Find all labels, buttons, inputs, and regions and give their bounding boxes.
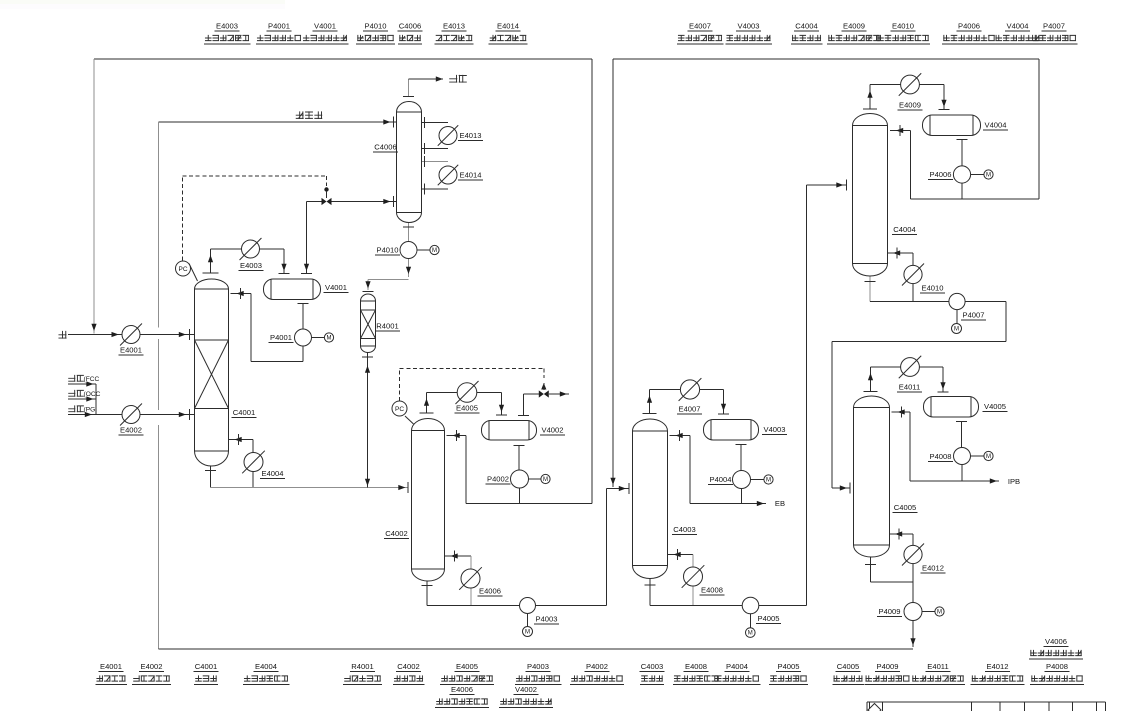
svg-text:P4002: P4002 [487, 475, 509, 484]
svg-text:V4005: V4005 [984, 402, 1006, 411]
svg-text:E4004: E4004 [255, 662, 277, 671]
title block (cut off at bottom edge) [867, 701, 1106, 703]
svg-text:C4005: C4005 [837, 662, 859, 671]
pump P4005 [742, 597, 759, 614]
column C4006 (purification column) [397, 102, 422, 223]
svg-text:E4001: E4001 [100, 662, 122, 671]
svg-text:EB: EB [775, 499, 785, 508]
heat exchanger E4011 [901, 358, 920, 377]
wire: E4008 reboiler loop [668, 554, 694, 556]
svg-text:C4005: C4005 [894, 503, 916, 512]
svg-text:E4011: E4011 [927, 662, 948, 671]
svg-text:V4003: V4003 [764, 425, 786, 434]
svg-text:M: M [766, 478, 771, 484]
svg-text:E4005: E4005 [456, 404, 478, 413]
svg-text:M: M [432, 248, 437, 254]
vessel V4002 [482, 421, 537, 441]
svg-text:V4003: V4003 [738, 22, 760, 31]
wire: E4010 reboiler loop [887, 252, 913, 254]
heat exchanger E4003 [242, 240, 260, 258]
wire: V4002 to P4002, reflux + distillate up [518, 446, 520, 471]
wire: C4001 overhead to E4003 to V4001 [210, 249, 212, 273]
svg-text:E4001: E4001 [120, 346, 142, 355]
pump P4003 [520, 598, 536, 614]
svg-text:R4001: R4001 [351, 662, 373, 671]
decorative faint strip (scan artifact) [0, 0, 285, 4]
svg-text:P4010: P4010 [365, 22, 387, 31]
pump P4008 [954, 448, 971, 465]
instrument PC (C4001 pressure control) [182, 176, 184, 261]
wire: E4012 reboiler loop [889, 533, 913, 535]
svg-text:V4006: V4006 [1045, 637, 1067, 646]
wire: C4004 overhead to E4009 to V4004 [869, 85, 871, 110]
svg-text:C4001: C4001 [195, 662, 217, 671]
heat exchanger E4008 [684, 567, 703, 586]
wire: V4005 to P4008, reflux + IPB product [961, 422, 963, 448]
vessel V4003 [704, 420, 759, 441]
wire: C4003 overhead to E4007 to V4003 [649, 390, 651, 414]
column C4005 (IPB/cumene column) [854, 396, 890, 557]
heat exchanger E4007 [680, 380, 699, 399]
heat exchanger E4004 [244, 453, 263, 472]
label dry gas PG [68, 405, 84, 412]
svg-text:C4001: C4001 [233, 408, 255, 417]
svg-text:P4009: P4009 [879, 607, 901, 616]
pump P4001 [295, 329, 312, 346]
svg-text:C4004: C4004 [795, 22, 817, 31]
heat exchanger E4013 [439, 127, 457, 145]
svg-text:E4009: E4009 [843, 22, 865, 31]
wire: E4004 reboiler loop [229, 439, 254, 441]
svg-text:E4008: E4008 [701, 586, 723, 595]
wire: E4006 reboiler loop [445, 555, 472, 557]
wire: C4002 bottoms via P4003 to C4003 feed [426, 581, 428, 606]
heat exchanger E4006 [461, 569, 480, 588]
wire: valve line to C4006 feed [307, 201, 322, 203]
pump P4009 [904, 603, 922, 621]
column C4004 (de-EB column) [853, 114, 888, 277]
pump P4006 [953, 166, 970, 183]
svg-text:E4006: E4006 [479, 587, 501, 596]
wire: C4003 bottoms via P4005 up to C4004 feed [649, 579, 651, 606]
svg-text:P4001: P4001 [268, 22, 290, 31]
svg-text:P4003: P4003 [536, 615, 558, 624]
svg-text:R4001: R4001 [376, 322, 398, 331]
svg-text:E4002: E4002 [120, 426, 142, 435]
svg-text:E4003: E4003 [240, 261, 262, 270]
svg-text:M: M [954, 327, 959, 333]
instrument PC (C4002) signal to valve [399, 369, 401, 402]
svg-text:P4010: P4010 [377, 246, 399, 255]
svg-text:E4011: E4011 [899, 383, 920, 392]
wire: C4005 overhead to E4011 to V4005 [870, 367, 872, 392]
svg-text:E4013: E4013 [460, 131, 482, 140]
svg-text:E4014: E4014 [497, 22, 519, 31]
svg-text:C4003: C4003 [673, 525, 695, 534]
svg-text:E4003: E4003 [216, 22, 238, 31]
svg-text:C4002: C4002 [385, 529, 407, 538]
svg-text:E4007: E4007 [679, 405, 701, 414]
svg-text:(OCC: (OCC [84, 391, 101, 398]
svg-text:M: M [986, 173, 991, 179]
svg-text:E4009: E4009 [899, 101, 921, 110]
wire: C4001 bottoms to C4002 feed [210, 466, 212, 488]
svg-text:V4004: V4004 [1007, 22, 1029, 31]
svg-text:M: M [937, 610, 942, 616]
label dry gas FCC [68, 375, 84, 382]
svg-text:P4008: P4008 [1046, 662, 1068, 671]
svg-text:(FCC: (FCC [84, 376, 100, 383]
wire: C4002 overhead to E4005 to V4002 [426, 393, 428, 413]
svg-text:M: M [748, 631, 753, 637]
svg-text:P4004: P4004 [710, 475, 732, 484]
svg-text:M: M [986, 454, 991, 460]
svg-text:V4001: V4001 [314, 22, 336, 31]
wire: DEB recycle line (bottom loop) [159, 121, 397, 123]
heat exchanger E4014 [439, 166, 457, 184]
svg-text:P4001: P4001 [270, 333, 292, 342]
heat exchanger E4010 [904, 265, 922, 283]
svg-text:C4006: C4006 [374, 143, 396, 152]
svg-text:P4005: P4005 [758, 614, 780, 623]
wire: E4013 intercooler loop [421, 121, 448, 123]
wire: V4003 to P4004, reflux + EB product [740, 445, 742, 471]
svg-text:E4002: E4002 [141, 662, 163, 671]
instrument PC1 [189, 264, 198, 282]
svg-text:P4009: P4009 [877, 662, 899, 671]
column C4001 (reaction column) [195, 279, 229, 466]
svg-text:E4010: E4010 [922, 284, 944, 293]
heat exchanger E4009 [901, 75, 920, 94]
svg-text:C4003: C4003 [641, 662, 663, 671]
wire: signal dashed to valve [183, 175, 327, 177]
pump P4007 [949, 293, 965, 309]
svg-text:PC: PC [395, 406, 404, 413]
wire: R4001 bottom to bottoms line [367, 353, 369, 488]
control valve (DEB draw) [324, 187, 328, 191]
wire: C4004 bottoms via P4007 down to C4005 feed [869, 276, 871, 302]
heat exchanger E4005 [457, 383, 477, 403]
svg-text:E4010: E4010 [892, 22, 914, 31]
wire: C4006 overhead dry gas [408, 79, 410, 96]
wire: V4001 bottom to P4001, reflux to C4001 [302, 304, 304, 330]
svg-text:E4013: E4013 [443, 22, 465, 31]
svg-text:P4002: P4002 [586, 662, 608, 671]
heat exchanger E4012 [904, 545, 922, 563]
reactor R4001 (alkylation) [361, 294, 376, 352]
svg-text:M: M [525, 630, 530, 636]
svg-text:E4012: E4012 [987, 662, 1009, 671]
svg-text:P4006: P4006 [930, 170, 952, 179]
heat exchanger E4002 [122, 406, 140, 424]
svg-text:PC: PC [178, 266, 187, 273]
svg-text:P4003: P4003 [527, 662, 549, 671]
pump P4004 [733, 471, 751, 489]
svg-text:E4012: E4012 [922, 564, 944, 573]
vessel V4001 (reflux drum) [264, 279, 321, 300]
vessel V4005 [924, 397, 979, 418]
svg-text:C4004: C4004 [893, 225, 915, 234]
wire: V4002 vapor through valve [523, 394, 525, 415]
svg-text:E4008: E4008 [685, 662, 707, 671]
svg-text:V4004: V4004 [985, 121, 1007, 130]
label dry gas OCC [68, 390, 84, 397]
svg-text:E4014: E4014 [460, 171, 482, 180]
svg-text:E4005: E4005 [456, 662, 478, 671]
wire: C4006 bottoms via P4010 to R4001 [408, 223, 410, 242]
column C4002 (benzene recovery) [412, 419, 445, 582]
svg-text:M: M [327, 336, 332, 342]
control valve (C4002 overhead) [539, 390, 549, 397]
svg-text:P4006: P4006 [958, 22, 980, 31]
heat exchanger E4001 [122, 326, 140, 344]
svg-text:E4006: E4006 [451, 685, 473, 694]
wire: C4005 bottoms via P4009 to DEB recycle [870, 557, 872, 582]
svg-text:C4002: C4002 [397, 662, 419, 671]
wire: E4014 intercooler loop [421, 160, 448, 162]
svg-text:V4002: V4002 [542, 426, 564, 435]
column C4003 (EB column) [633, 419, 668, 579]
svg-text:P4007: P4007 [963, 311, 985, 320]
wire: benzene feed line [58, 331, 66, 339]
pump P4010 [400, 242, 417, 259]
svg-text:C4006: C4006 [399, 22, 421, 31]
svg-text:P4007: P4007 [1043, 22, 1065, 31]
svg-text:E4007: E4007 [689, 22, 711, 31]
svg-text:P4008: P4008 [930, 452, 952, 461]
vessel V4004 [923, 115, 981, 136]
svg-text:P4004: P4004 [726, 662, 748, 671]
svg-text:V4002: V4002 [515, 685, 537, 694]
wire: benzene recycle top line (P4002 up, across, down to feed) [591, 59, 593, 504]
wire: V4004 to P4006, reflux + recycle to header [961, 140, 963, 167]
svg-text:E4004: E4004 [262, 469, 284, 478]
pump P4002 [511, 470, 529, 488]
svg-text:V4001: V4001 [325, 283, 347, 292]
wire: dry gas feed lines [68, 383, 96, 385]
svg-text:M: M [543, 477, 548, 483]
svg-text:P4005: P4005 [778, 662, 800, 671]
wire: top-right header, drop to C4003 feed [613, 58, 1039, 60]
instrument PC2 [405, 416, 414, 424]
svg-text:IPB: IPB [1008, 477, 1020, 486]
